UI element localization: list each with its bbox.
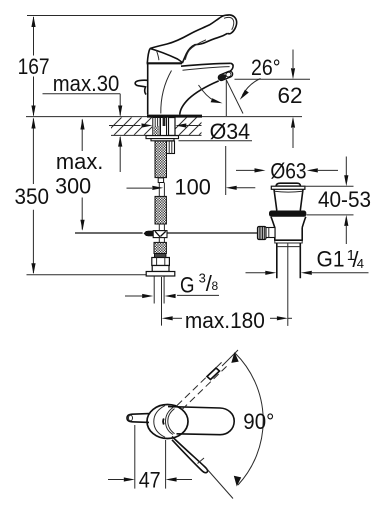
locknut flange under counter	[146, 136, 179, 141]
faucet upper body	[135, 15, 236, 116]
mounting hole contents	[153, 118, 175, 136]
G3/8 tails	[154, 277, 164, 304]
dimension 167	[18, 16, 50, 117]
body cylinder	[275, 228, 302, 241]
spout underside to base	[180, 81, 219, 115]
dimension Ø63	[236, 158, 338, 183]
spout stub left	[127, 414, 149, 423]
dome under lever	[150, 49, 183, 64]
svg-text:47: 47	[139, 468, 161, 493]
rod socket block	[167, 141, 175, 154]
cap left edge	[147, 49, 150, 64]
svg-text:300: 300	[55, 174, 91, 199]
svg-text:G1: G1	[317, 247, 345, 272]
spout front	[230, 63, 233, 71]
faucet axis line lower	[161, 277, 163, 326]
tailpipe	[277, 243, 301, 278]
neck	[274, 189, 303, 210]
dome cap	[276, 183, 301, 186]
svg-text:max.30: max.30	[53, 71, 120, 96]
countertop cross-section band	[104, 117, 217, 135]
svg-text:3: 3	[199, 271, 206, 286]
thin tube below joint	[159, 238, 164, 243]
svg-text:Ø34: Ø34	[210, 119, 251, 144]
arm crease	[185, 40, 206, 60]
26 degree annotation	[199, 55, 281, 116]
inner joint curves	[154, 406, 165, 438]
countertop top line	[26, 116, 302, 118]
90 degree arc	[235, 353, 263, 485]
svg-text:350: 350	[15, 184, 50, 209]
base bottom thick line	[147, 115, 202, 118]
rod joint fitting	[144, 231, 167, 238]
lever upper edge	[150, 18, 220, 49]
hex nut upper	[152, 258, 170, 266]
flange lip	[271, 186, 305, 189]
o-ring seal	[269, 211, 306, 217]
cap bottom thick line	[147, 62, 182, 64]
pop-up horizontal rod	[75, 232, 258, 234]
body ellipse	[127, 350, 274, 499]
lever capsule	[168, 407, 234, 435]
hex nut lower	[152, 266, 169, 272]
svg-text:40-53: 40-53	[318, 187, 371, 212]
svg-text:100: 100	[175, 174, 211, 199]
dashed lever up position	[177, 361, 223, 406]
upper ray	[222, 350, 238, 366]
rod down-right	[172, 437, 208, 473]
dimension 350	[15, 118, 147, 275]
knurled knob	[258, 227, 267, 240]
svg-text:62: 62	[278, 83, 303, 108]
label G1 1/4	[246, 247, 369, 275]
svg-text:26°: 26°	[251, 55, 281, 80]
spout top lines	[181, 63, 231, 66]
dimension max.180	[162, 308, 292, 333]
svg-text:Ø63: Ø63	[270, 158, 306, 183]
thin tube below hose	[159, 224, 164, 231]
threaded shank below flange	[155, 141, 167, 178]
aerator	[217, 70, 233, 81]
nipple	[158, 178, 163, 183]
dimension 47	[108, 425, 192, 493]
label G3/8	[125, 271, 219, 298]
svg-text:max.: max.	[56, 149, 104, 174]
dimension 100	[127, 146, 256, 199]
braided hose lower	[154, 242, 166, 253]
dimension max.30	[43, 71, 123, 172]
svg-text:8: 8	[212, 279, 219, 293]
body left edge	[147, 63, 149, 114]
svg-text:167: 167	[18, 54, 50, 79]
washer	[146, 272, 175, 277]
pop-up waste assembly	[258, 183, 307, 326]
svg-text:G: G	[180, 273, 195, 298]
svg-text:max.180: max.180	[185, 308, 265, 333]
body taper	[271, 217, 306, 228]
top extension line	[27, 15, 229, 17]
dimension 40-53	[303, 157, 371, 245]
lower ray	[207, 469, 234, 499]
inner body curve	[161, 71, 172, 114]
dimension Ø34	[109, 119, 252, 144]
pop-up hook at back	[135, 80, 148, 94]
svg-text:90°: 90°	[243, 409, 274, 434]
lever tip knob	[220, 15, 237, 34]
hose collar dark band	[155, 254, 166, 258]
lever lower edge	[182, 33, 227, 63]
inner cap line	[156, 50, 159, 60]
dimension max.300	[55, 119, 103, 231]
thin tube to hose	[159, 183, 164, 197]
drain centerline	[287, 243, 289, 326]
dimension 62	[235, 50, 311, 149]
braided hose upper	[155, 196, 166, 224]
svg-text:4: 4	[357, 256, 364, 271]
